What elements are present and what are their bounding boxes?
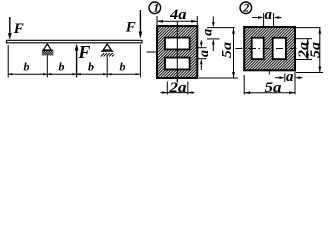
section 1 outer rect hatched [157, 26, 197, 78]
svg-text:F: F [13, 21, 24, 37]
section 1 bottom centerline tick [176, 78, 178, 82]
section 1 vertical centerline [176, 22, 178, 83]
dim 2a (slot width, bottom of section 1) [161, 82, 195, 95]
dim 4a (top of section 1) [157, 16, 197, 25]
svg-text:F: F [125, 20, 136, 36]
circled 2 [240, 1, 252, 15]
svg-text:b: b [88, 60, 94, 74]
dim 5a (overall width, bottom of section 2) [244, 72, 295, 95]
beam (double line) [7, 40, 143, 44]
svg-text:2a: 2a [168, 80, 187, 96]
dim a (top rib width, section 2) [252, 7, 282, 27]
svg-text:5a: 5a [265, 80, 283, 96]
dim arrows beam [8, 73, 140, 75]
section 2 right side extension ticks [296, 28, 323, 73]
section 2 horizontal centerline [236, 48, 300, 50]
extension line support left [46, 56, 48, 78]
section 2 bottom centerline tick [268, 71, 270, 75]
support right (roller) [101, 44, 114, 57]
svg-text:2: 2 [242, 1, 249, 15]
force F middle (up arrow below beam) [75, 44, 79, 78]
section 2 slot right [273, 38, 286, 59]
svg-text:a: a [265, 7, 273, 23]
support left (pin) [42, 44, 54, 56]
section 1 right side extension ticks [196, 28, 238, 78]
section 2 slot left [252, 38, 264, 59]
svg-text:a: a [286, 69, 294, 85]
svg-text:5a: 5a [220, 42, 235, 58]
section 1 slot lower [165, 58, 190, 70]
dim 5a (overall height, section 2) [307, 28, 322, 73]
svg-text:b: b [120, 60, 126, 74]
extension line left end [7, 45, 9, 78]
svg-text:5a: 5a [307, 42, 322, 58]
dim a (gap between slots, section 1) [197, 41, 212, 71]
force F right (down arrow at right end) [139, 10, 143, 39]
section 1 horizontal centerline stub [147, 51, 159, 53]
svg-text:4a: 4a [169, 7, 187, 23]
section 2 outer rect hatched [244, 27, 295, 70]
svg-text:b: b [24, 60, 30, 74]
dim a (top margin, section 1) [200, 17, 215, 52]
section 1 slot upper [165, 38, 190, 50]
svg-text:a: a [200, 29, 215, 36]
force F left (down arrow at left end) [8, 17, 12, 40]
dim 5a (overall height, section 1) [220, 28, 235, 78]
dim a (right wall width, bottom right of section 2) [275, 69, 303, 85]
extension line right end [139, 45, 141, 78]
svg-text:b: b [59, 60, 65, 74]
dim 2a (slot depth, section 2) [295, 39, 310, 60]
svg-text:a: a [197, 50, 212, 57]
extension line support right [106, 57, 108, 78]
beam dimension line [8, 73, 140, 75]
circled 1 [149, 1, 161, 15]
svg-text:1: 1 [153, 1, 159, 15]
